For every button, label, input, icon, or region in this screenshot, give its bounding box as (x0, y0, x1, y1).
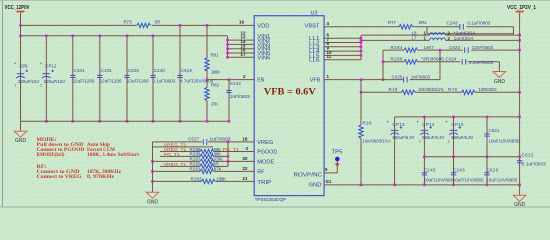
resistor R288 with net VREG_T1 / PG_T1 (PGOOD row y=151.5) (160, 147, 254, 154)
svg-text:10uF/10V/0805: 10uF/10V/0805 (486, 177, 518, 182)
svg-text:GND: GND (15, 138, 27, 144)
svg-text:C622: C622 (522, 152, 535, 157)
svg-text:VBST: VBST (305, 23, 321, 29)
capacitor C622 (517, 152, 546, 166)
resistor R77 (388, 20, 427, 29)
svg-text:100K: 100K (211, 70, 220, 75)
svg-text:TPS53353DQP: TPS53353DQP (255, 197, 287, 202)
wire VOUT column (x=519.6) (518, 35, 521, 186)
svg-text:R78: R78 (448, 87, 458, 92)
svg-text:CP12: CP12 (45, 64, 57, 69)
svg-text:GND: GND (147, 200, 159, 206)
pin name LL2 (309, 41, 320, 47)
pin number 17 (241, 52, 246, 57)
wire feedback bus (x=383) (382, 50, 385, 81)
svg-text:2: 2 (419, 140, 421, 144)
svg-text:0.1uF/0603: 0.1uF/0603 (468, 21, 491, 26)
svg-text:R291: R291 (190, 167, 202, 172)
ground (input rail) (14, 121, 27, 144)
node VFB = 0.6V annotation (264, 87, 316, 98)
svg-text:R77: R77 (388, 20, 397, 25)
pin number 8 (327, 41, 330, 46)
pin number 7 (327, 37, 330, 42)
svg-text:10K/0603/1%: 10K/0603/1% (363, 138, 389, 143)
svg-text:TP5: TP5 (332, 150, 343, 156)
pin name LL1 (309, 36, 320, 42)
ground (output rail) (513, 185, 526, 208)
resistor R19 (row y=92.3) (360, 87, 462, 95)
wire bootstrap return loop (427, 27, 514, 34)
MODE annotation text block (37, 137, 140, 158)
pin name VREG (257, 140, 273, 146)
pin name ROVP/NC (294, 173, 323, 179)
pin name GND (G1) (309, 183, 322, 189)
svg-text:*1uH/20A: *1uH/20A (454, 31, 476, 36)
svg-text:2: 2 (15, 84, 17, 88)
svg-text:C245: C245 (424, 167, 437, 172)
wire VREG_T1 stub row (y=146.9) (153, 146, 214, 148)
svg-text:22: 22 (243, 166, 248, 171)
svg-text:C104: C104 (74, 68, 86, 73)
svg-text:MODE: MODE (257, 159, 274, 165)
svg-text:R286: R286 (391, 57, 404, 62)
resistor R73 (124, 20, 161, 28)
svg-text:RMODE(kΩ): RMODE(kΩ) (37, 151, 65, 158)
capacitor C620 (484, 157, 517, 185)
svg-text:560uF/6.3V: 560uF/6.3V (393, 135, 415, 140)
svg-text:100K, 1.4ms SoftStart: 100K, 1.4ms SoftStart (87, 152, 139, 158)
capacitor C621 (484, 117, 520, 157)
pin name LL3 (309, 45, 320, 51)
inductor L7 (361, 36, 521, 42)
pin number 20 (243, 156, 248, 161)
capacitor C242 (226, 80, 250, 123)
capacitor C619 (177, 25, 214, 122)
svg-text:PGOOD: PGOOD (257, 150, 277, 156)
svg-text:PG_T1: PG_T1 (223, 147, 239, 152)
capacitor C627 (188, 136, 231, 144)
pin name RF (257, 169, 265, 175)
pin number 9 (327, 46, 330, 51)
svg-text:C243: C243 (447, 21, 459, 26)
resistor R290 with net VREG_T1 (row y=166.4) (160, 162, 228, 169)
capacitor C104 (70, 36, 95, 123)
pin number 1 (327, 74, 330, 79)
svg-text:22uF/1206: 22uF/1206 (127, 78, 150, 83)
svg-text:0.1uF/0603: 0.1uF/0603 (152, 78, 175, 83)
RF annotation text block (37, 164, 122, 180)
resistor R78 (448, 87, 521, 95)
pin name VBST (305, 23, 321, 29)
pin number 11 (327, 54, 332, 59)
power flag VCC_12P0V (5, 5, 30, 25)
svg-text:22nF/0603: 22nF/0603 (472, 45, 494, 50)
svg-text:GND: GND (309, 183, 322, 189)
svg-text:2: 2 (40, 84, 42, 88)
svg-text:10uF/10V/0805: 10uF/10V/0805 (489, 139, 521, 144)
pin number 12 (241, 30, 246, 35)
capacitor C105 (97, 36, 122, 123)
wire VOUT top rail (y=116.9) (395, 116, 520, 119)
wire VIN bus (226, 36, 229, 59)
pin name VFB (310, 78, 321, 84)
capacitor C624 (439, 49, 500, 65)
svg-text:TRIP: TRIP (257, 180, 272, 186)
capacitor C626 (124, 36, 149, 123)
svg-text:2: 2 (389, 140, 391, 144)
svg-text:C625: C625 (392, 74, 404, 79)
svg-text:22uF/1206: 22uF/1206 (73, 78, 96, 83)
svg-text:1uF/0603: 1uF/0603 (210, 136, 232, 141)
pin number G1 (326, 179, 332, 184)
pin name VIN5 (257, 51, 270, 57)
inductor L8 (361, 30, 521, 36)
pin name VIN2 (257, 38, 270, 44)
svg-text:G1: G1 (326, 179, 332, 184)
svg-text:0, 970KHz: 0, 970KHz (87, 174, 115, 180)
svg-text:+: + (445, 120, 448, 125)
svg-text:10K/0603/1%: 10K/0603/1% (418, 87, 444, 92)
svg-text:10R/0603: 10R/0603 (479, 87, 498, 92)
wire R20 column (x=361) (360, 80, 363, 187)
wire mid rail (y=156.8) (423, 156, 519, 159)
pin name VIN3 (257, 42, 270, 48)
resistor R291 (RF row y=171.4) (151, 167, 254, 174)
svg-text:R82: R82 (211, 82, 220, 87)
svg-text:CP8: CP8 (20, 64, 29, 69)
node VREG_T1 label (164, 142, 187, 147)
svg-text:R284: R284 (391, 45, 404, 50)
svg-text:C240: C240 (154, 68, 166, 73)
wire VDD rail (row y=25.4) (19, 24, 254, 27)
capacitor CP12 (40, 36, 66, 123)
svg-text:R73: R73 (124, 20, 133, 25)
pin number 15 (241, 43, 246, 48)
pin number 18 (243, 137, 248, 142)
svg-text:11: 11 (327, 54, 332, 59)
svg-text:R293: R293 (191, 176, 203, 181)
page frame top (0, 0, 550, 2)
svg-text:C624: C624 (446, 57, 458, 62)
pin number 3 (246, 146, 249, 151)
pin name LL6 (309, 58, 320, 64)
wire input GND rail (row y=121.3) (21, 120, 230, 122)
svg-text:17: 17 (241, 52, 246, 57)
svg-text:+: + (40, 61, 43, 66)
svg-text:220uF/16V: 220uF/16V (44, 79, 66, 84)
pin number 10 (327, 50, 332, 55)
page frame left (2, 1, 4, 207)
svg-text:560uF/6.3V: 560uF/6.3V (451, 135, 473, 140)
svg-text:560uF/6.3V: 560uF/6.3V (422, 135, 444, 140)
svg-text:EN: EN (257, 78, 264, 84)
svg-text:22uF/1206: 22uF/1206 (100, 78, 123, 83)
svg-text:1nF/0603: 1nF/0603 (411, 74, 431, 79)
svg-text:VIN6: VIN6 (257, 55, 270, 61)
svg-text:C619: C619 (181, 68, 193, 73)
pin number 5 (325, 167, 328, 172)
svg-text:1uH/20A: 1uH/20A (454, 36, 474, 41)
pin name VDD (257, 23, 269, 29)
svg-text:10uF/10V/0805: 10uF/10V/0805 (424, 177, 456, 182)
resistor R284 (row y=50.1) (383, 45, 463, 52)
svg-text:VFB = 0.6V: VFB = 0.6V (264, 87, 316, 98)
op-amp U1 : IC U3 TPS53353DQP body (254, 10, 324, 202)
pin number 4 (327, 21, 330, 26)
svg-text:C627: C627 (188, 136, 200, 141)
capacitor C246 (451, 157, 484, 185)
page frame bottom (0, 206, 550, 208)
svg-text:Connect to VREG: Connect to VREG (37, 174, 82, 180)
svg-text:RF: RF (257, 169, 265, 175)
svg-text:C242: C242 (230, 81, 242, 86)
svg-text:CP13: CP13 (393, 122, 406, 127)
pin name LL4 (309, 49, 320, 55)
svg-text:U3: U3 (311, 10, 318, 16)
svg-text:C620: C620 (486, 167, 499, 172)
pin name VIN6 (257, 55, 270, 61)
wire left GND bus (x=152.5) (152, 142, 154, 192)
wire GND rail (y=184.9) (324, 184, 519, 187)
svg-text:+: + (416, 120, 419, 125)
svg-text:19: 19 (239, 20, 244, 25)
svg-text:220uF/16V: 220uF/16V (18, 79, 40, 84)
svg-text:LL6: LL6 (309, 58, 320, 64)
svg-text:VREG: VREG (257, 140, 273, 146)
capacitor CP8 (14, 36, 40, 122)
wire VFB row (y=79.6) (324, 50, 440, 81)
pin number 21 (243, 176, 248, 181)
resistor R20 (359, 120, 389, 143)
svg-text:0R: 0R (155, 20, 161, 25)
wire VBST row (y=26.8) (324, 26, 513, 28)
svg-text:CP15: CP15 (451, 122, 464, 127)
pin name VIN4 (257, 47, 270, 53)
svg-text:*3R3/0605: *3R3/0605 (421, 57, 445, 62)
svg-text:18: 18 (243, 137, 248, 142)
svg-text:C105: C105 (101, 68, 113, 73)
test point TP5 (332, 150, 343, 173)
svg-text:100K: 100K (217, 176, 227, 181)
wire VIN rail (row y=35.8) (19, 25, 227, 37)
svg-text:1nF/0603: 1nF/0603 (230, 94, 251, 99)
wire EN row (y=79.6) (206, 78, 255, 81)
svg-text:187K: 187K (212, 167, 222, 172)
wire VIN pin stubs (228, 40, 255, 57)
svg-text:GND: GND (514, 202, 526, 208)
wire ROVP/NC stub (324, 172, 337, 174)
svg-text:10uF/10V/0805: 10uF/10V/0805 (453, 177, 485, 182)
resistor R289 with net PG_T1 (row y=156.4) (160, 152, 228, 159)
wire LL bus (360, 35, 363, 60)
capacitor C240 (150, 36, 175, 123)
capacitor CP13 (387, 117, 415, 185)
svg-text:CP14: CP14 (422, 122, 435, 127)
svg-text:0.1uF/0603: 0.1uF/0603 (522, 162, 547, 167)
svg-text:VCC_1P2V_1: VCC_1P2V_1 (507, 5, 536, 11)
ground (C624) (493, 62, 506, 85)
svg-text:L8: L8 (412, 30, 417, 35)
pin name MODE (257, 159, 274, 165)
wire LL pin stubs (324, 38, 361, 60)
ground (left bus) (146, 192, 159, 205)
resistor R287 (MODE row y=161.4) (151, 157, 254, 164)
resistor R81 (205, 25, 220, 79)
svg-text:27K: 27K (211, 101, 218, 106)
svg-text:14K7: 14K7 (424, 45, 435, 50)
pin number 14 (241, 39, 246, 44)
svg-text:20: 20 (243, 156, 248, 161)
svg-text:2R2: 2R2 (419, 20, 428, 25)
svg-text:ROVP/NC: ROVP/NC (294, 173, 323, 179)
power flag VCC_1P2V_1 (507, 5, 536, 35)
capacitor C243 (447, 21, 491, 30)
svg-text:+: + (14, 61, 17, 66)
svg-text:R81: R81 (211, 53, 220, 58)
resistor R293 (TRIP row y=181.4) (151, 176, 254, 183)
capacitor C623 (449, 45, 521, 53)
svg-text:C621: C621 (489, 128, 501, 133)
svg-text:L7: L7 (412, 36, 417, 41)
pin name LL5 (309, 53, 320, 59)
svg-text:C626: C626 (128, 68, 140, 73)
resistor R286 (row y=61.8) (383, 57, 461, 64)
svg-text:C623: C623 (449, 45, 461, 50)
svg-text:VDD: VDD (257, 23, 269, 29)
svg-text:GND: GND (494, 79, 506, 85)
svg-text:C246: C246 (453, 167, 466, 172)
pin name PGOOD (257, 150, 277, 156)
resistor R82 (205, 80, 220, 123)
pin number 2 (243, 74, 246, 79)
pin number 13 (241, 35, 246, 40)
svg-text:R19: R19 (389, 87, 399, 92)
wire VREG row (y=141.9) (153, 141, 255, 144)
capacitor C625 (392, 74, 431, 82)
wire vertical VREG feed (x=228) (227, 142, 230, 167)
svg-text:VFB: VFB (310, 78, 321, 84)
svg-text:VCC_12P0V: VCC_12P0V (5, 5, 30, 11)
pin number 6 (327, 33, 330, 38)
pin number 19 (239, 20, 244, 25)
capacitor CP15 (445, 117, 473, 157)
svg-text:*2.2nF/0603: *2.2nF/0603 (467, 60, 494, 65)
capacitor C245 (422, 157, 455, 185)
pin number 22 (243, 166, 248, 171)
svg-text:+: + (387, 120, 390, 125)
pin name TRIP (257, 180, 272, 186)
svg-text:R20: R20 (363, 120, 373, 125)
svg-text:2: 2 (448, 140, 450, 144)
pin name VIN1 (257, 34, 270, 40)
pin name EN (257, 78, 264, 84)
capacitor CP14 (416, 117, 444, 157)
pin number 16 (241, 48, 246, 53)
svg-text:21: 21 (243, 176, 248, 181)
